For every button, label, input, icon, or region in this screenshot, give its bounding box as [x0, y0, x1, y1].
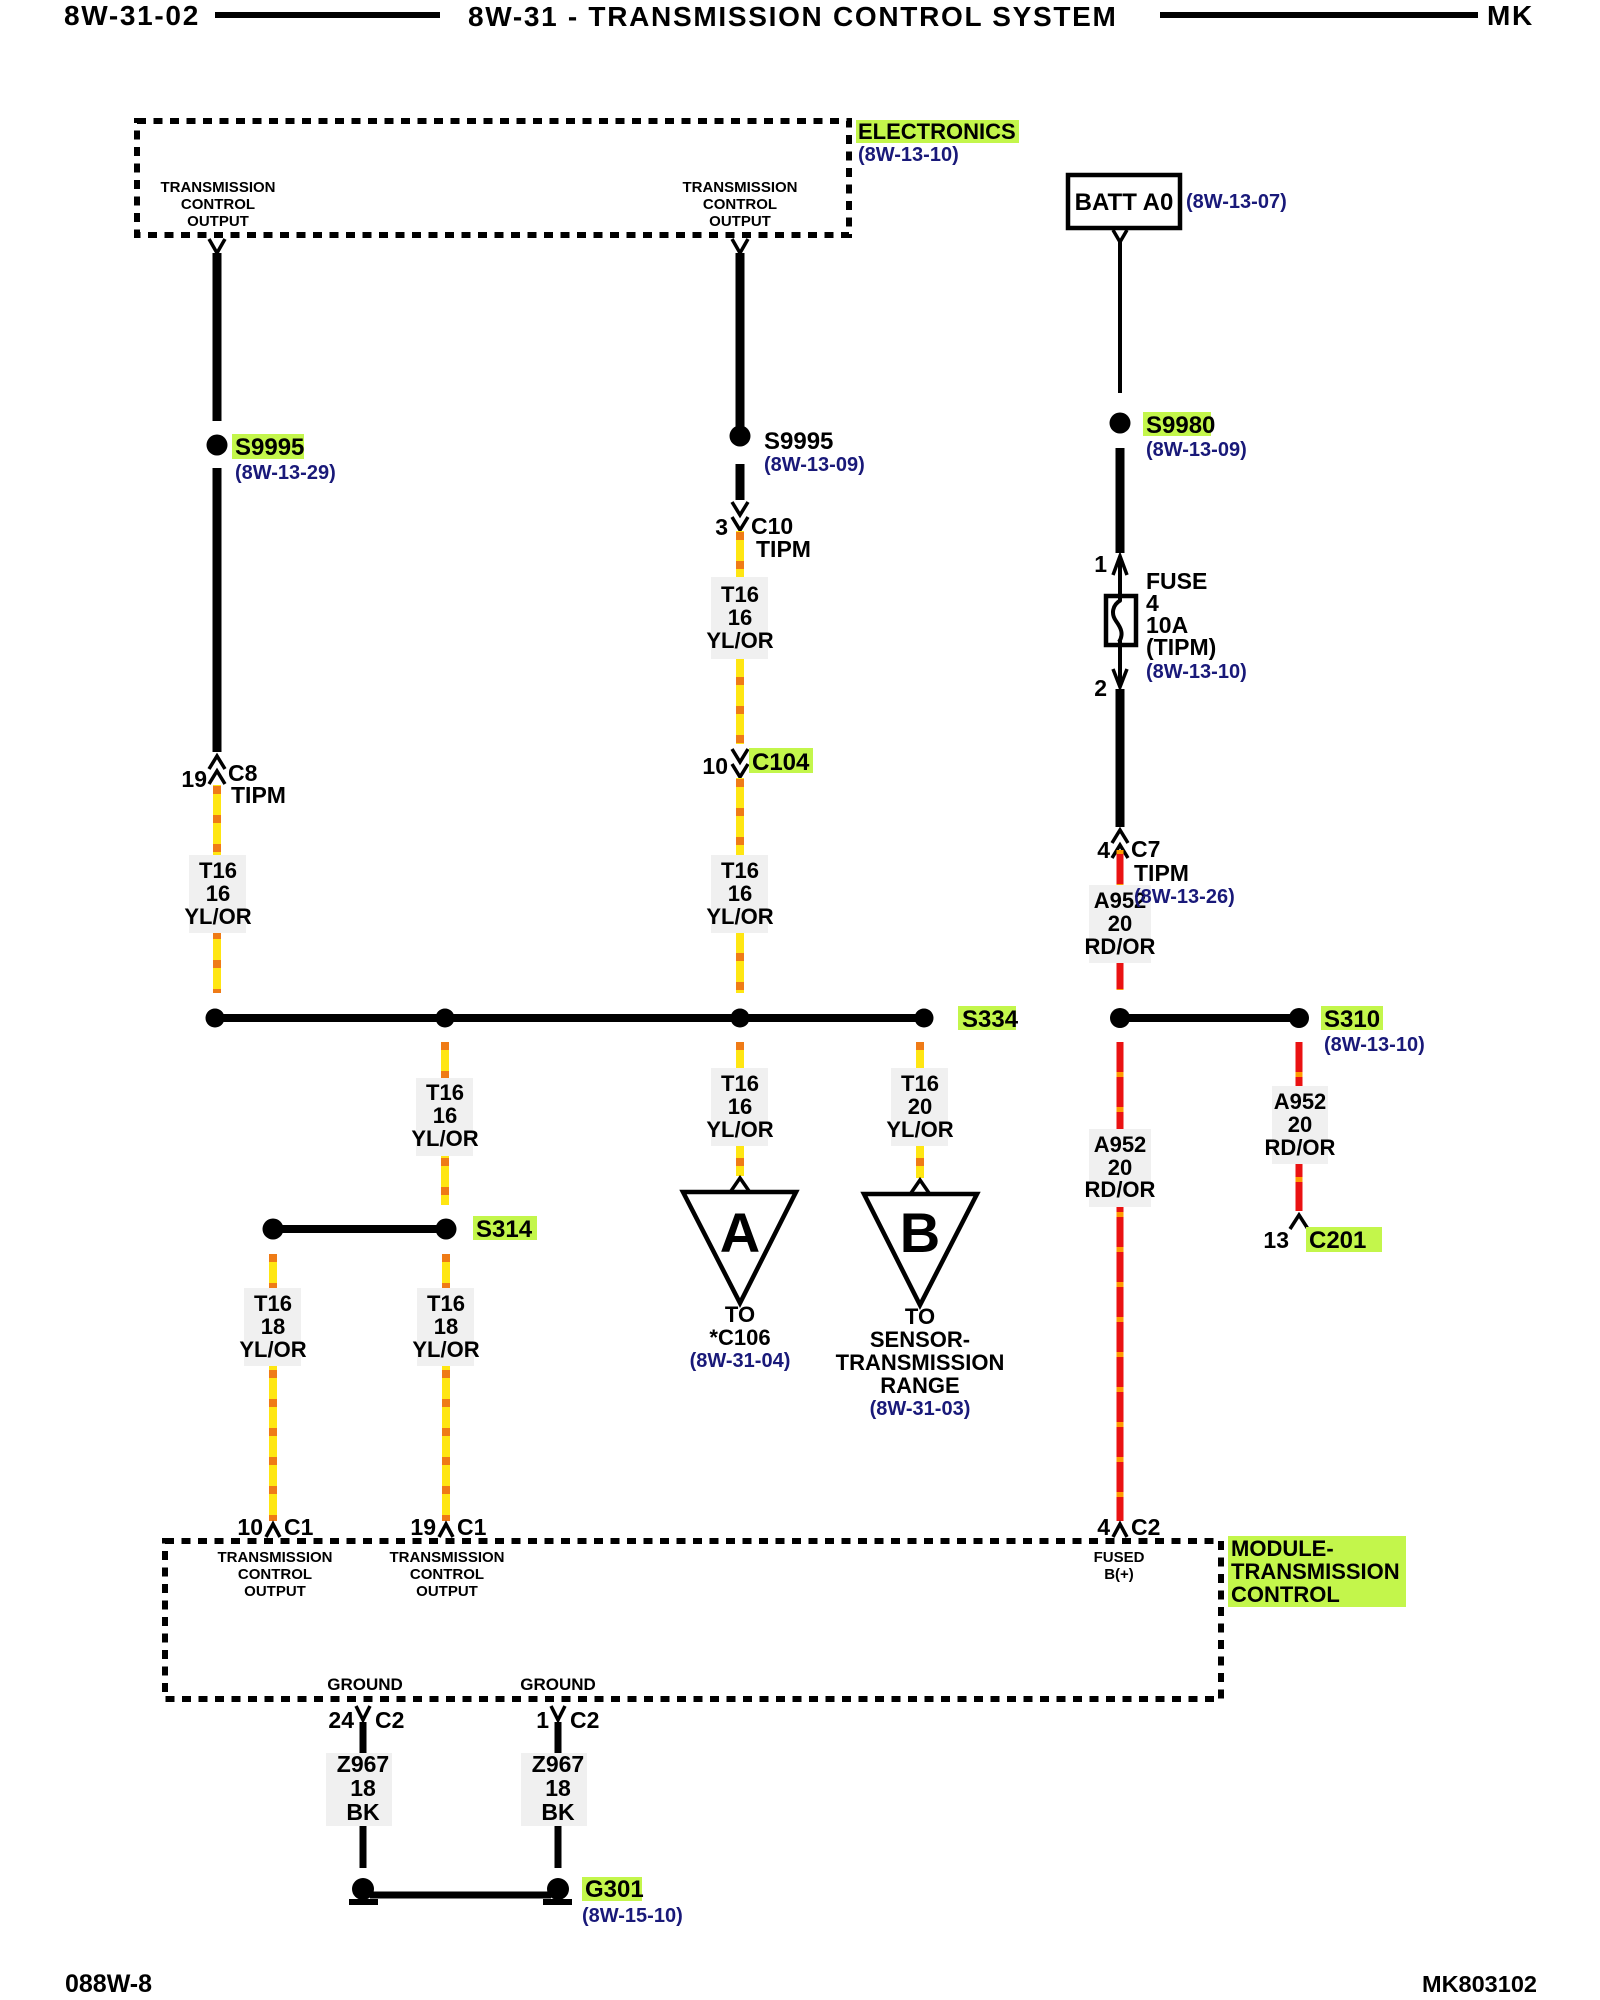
- svg-text:(8W-13-07): (8W-13-07): [1186, 191, 1287, 213]
- svg-text:RD/OR: RD/OR: [1085, 934, 1156, 959]
- splice S9980: [1110, 413, 1131, 434]
- svg-text:10: 10: [702, 753, 728, 779]
- HEADER: [64, 0, 1534, 32]
- svg-text:C1: C1: [284, 1514, 314, 1540]
- svg-text:16: 16: [728, 605, 752, 630]
- fuse F4 10A body: [1106, 596, 1136, 645]
- svg-text:YL/OR: YL/OR: [239, 1337, 306, 1362]
- svg-text:C104: C104: [752, 749, 810, 776]
- label S314: [473, 1216, 537, 1240]
- svg-text:3: 3: [715, 514, 728, 540]
- FOOTER: [65, 1970, 1537, 1998]
- wire A952 20 RD/OR (S310 to C2): [1117, 1042, 1124, 1521]
- wire T16 16 YL/OR (S334 to S314): [441, 1042, 449, 1205]
- svg-text:T16: T16: [721, 1071, 759, 1096]
- svg-text:YL/OR: YL/OR: [886, 1117, 953, 1142]
- svg-text:13: 13: [1263, 1227, 1289, 1253]
- GROUNDS: [326, 1706, 683, 1927]
- fuse pin 2 chevron: [1113, 669, 1127, 687]
- svg-text:TRANSMISSION: TRANSMISSION: [217, 1549, 332, 1566]
- svg-text:OUTPUT: OUTPUT: [187, 213, 249, 230]
- svg-text:YL/OR: YL/OR: [706, 628, 773, 653]
- header rule left: [215, 12, 440, 18]
- svg-text:CONTROL: CONTROL: [1231, 1582, 1340, 1607]
- battery node BATT A0 box: [1068, 175, 1180, 228]
- svg-text:19: 19: [181, 766, 207, 792]
- electronics label highlight: [856, 120, 1019, 143]
- svg-text:TIPM: TIPM: [756, 536, 811, 562]
- svg-text:10: 10: [237, 1514, 263, 1540]
- module dashed box: [165, 1541, 1221, 1699]
- svg-text:SENSOR-: SENSOR-: [870, 1327, 970, 1352]
- off-page triangle A: [683, 1192, 796, 1303]
- svg-text:1: 1: [1094, 551, 1107, 577]
- svg-text:(8W-31-03): (8W-31-03): [870, 1398, 971, 1420]
- svg-text:S9995: S9995: [235, 434, 304, 461]
- MODULE BOX: [165, 1514, 1406, 1699]
- svg-text:18: 18: [434, 1314, 458, 1339]
- svg-text:(8W-13-10): (8W-13-10): [858, 144, 959, 166]
- svg-text:19: 19: [410, 1514, 436, 1540]
- splice bus S310: [1120, 1014, 1299, 1022]
- connector V at electronics box (mid output): [732, 239, 748, 253]
- svg-text:YL/OR: YL/OR: [706, 904, 773, 929]
- fuse element S-curve: [1113, 600, 1122, 642]
- svg-text:C1: C1: [457, 1514, 487, 1540]
- off-page triangle B: [864, 1194, 977, 1305]
- svg-text:18: 18: [261, 1314, 285, 1339]
- svg-text:(TIPM): (TIPM): [1146, 634, 1216, 660]
- svg-text:A952: A952: [1274, 1089, 1327, 1114]
- wire into fuse: [1118, 557, 1122, 601]
- svg-text:S310: S310: [1324, 1006, 1380, 1033]
- connector 19 C1 chevron: [439, 1524, 453, 1537]
- connector 19 C8 chevrons: [209, 756, 225, 769]
- svg-text:MK: MK: [1487, 0, 1534, 31]
- svg-text:C2: C2: [1131, 1514, 1160, 1540]
- wire T16 16 YL/OR (C104 to S334): [736, 778, 744, 993]
- wire Z967 18 BK (upper, right): [555, 1722, 562, 1753]
- svg-text:T16: T16: [721, 582, 759, 607]
- connector 4 C7 chevrons: [1112, 830, 1128, 843]
- label G301: [582, 1877, 642, 1901]
- label S334: [958, 1006, 1016, 1030]
- wire: mid output down to C10: [736, 253, 745, 427]
- svg-text:T16: T16: [199, 858, 237, 883]
- svg-text:Z967: Z967: [337, 1751, 389, 1777]
- svg-text:BK: BK: [541, 1799, 575, 1825]
- connector 13 C201 chevron: [1290, 1215, 1308, 1229]
- connector 10 C1 chevron: [266, 1524, 280, 1537]
- LOWER MID: [239, 1042, 1004, 1521]
- ground node dot right: [547, 1878, 569, 1900]
- wire A952 20 RD/OR (S310 to C201): [1296, 1042, 1303, 1211]
- ELECTRONICS BOX: [137, 119, 1287, 235]
- svg-text:B(+): B(+): [1104, 1566, 1134, 1583]
- MID COLUMN: [702, 239, 864, 993]
- wire label T16 18 YL/OR: [244, 1288, 301, 1366]
- wire T16 18 YL/OR (S314 to 10 C1): [269, 1254, 277, 1521]
- wire: S9980 down to fuse pin 1: [1116, 448, 1125, 553]
- svg-text:OUTPUT: OUTPUT: [709, 213, 771, 230]
- splice S9995 (mid): [730, 426, 751, 447]
- svg-text:20: 20: [1108, 911, 1132, 936]
- svg-text:YL/OR: YL/OR: [412, 1337, 479, 1362]
- svg-text:(8W-13-10): (8W-13-10): [1324, 1034, 1425, 1056]
- wire out of fuse: [1118, 641, 1122, 686]
- splice S9995 (left): [207, 435, 228, 456]
- svg-text:TO: TO: [905, 1304, 935, 1329]
- splice bus S314: [273, 1225, 446, 1233]
- svg-text:OUTPUT: OUTPUT: [244, 1583, 306, 1600]
- wire label A952 20 RD/OR: [1089, 885, 1151, 963]
- wire label Z967 18 BK: [326, 1753, 392, 1826]
- svg-text:16: 16: [728, 881, 752, 906]
- wire label T16 16 YL/OR: [416, 1078, 473, 1156]
- connector V at electronics box (left output): [209, 239, 225, 253]
- wire label A952 20 RD/OR: [1089, 1129, 1151, 1207]
- svg-text:S9980: S9980: [1146, 412, 1215, 439]
- wire T16 16 YL/OR (C8 to S334): [213, 785, 221, 993]
- svg-text:20: 20: [1288, 1112, 1312, 1137]
- svg-text:TIPM: TIPM: [1134, 860, 1189, 886]
- svg-text:(8W-31-04): (8W-31-04): [690, 1350, 791, 1372]
- node S310 dot left: [1110, 1008, 1130, 1028]
- wire T16 16 YL/OR (C10 to C104): [736, 531, 744, 744]
- svg-text:GROUND: GROUND: [327, 1675, 403, 1694]
- svg-text:MK803102: MK803102: [1422, 1971, 1537, 1997]
- connector 4 C2 chevron: [1113, 1524, 1127, 1537]
- connector 24 C2 chevron: [356, 1706, 370, 1720]
- svg-text:8W-31-02: 8W-31-02: [64, 0, 200, 31]
- wire: battery feed down to S9980: [1118, 242, 1122, 393]
- wire Z967 18 BK (lower, left): [360, 1826, 367, 1868]
- svg-text:(8W-13-10): (8W-13-10): [1146, 661, 1247, 683]
- wire label A952 20 RD/OR: [1272, 1086, 1328, 1164]
- node S334 dot 2: [436, 1009, 455, 1028]
- svg-text:1: 1: [536, 1707, 549, 1733]
- svg-text:20: 20: [908, 1094, 932, 1119]
- svg-text:CONTROL: CONTROL: [238, 1566, 312, 1583]
- svg-text:18: 18: [350, 1775, 376, 1801]
- svg-text:C7: C7: [1131, 836, 1160, 862]
- svg-text:TRANSMISSION: TRANSMISSION: [682, 179, 797, 196]
- svg-text:(8W-13-26): (8W-13-26): [1134, 886, 1235, 908]
- svg-text:CONTROL: CONTROL: [410, 1566, 484, 1583]
- svg-text:24: 24: [328, 1707, 354, 1733]
- svg-text:4: 4: [1097, 1514, 1110, 1540]
- svg-text:GROUND: GROUND: [520, 1675, 596, 1694]
- wire label Z967 18 BK: [521, 1753, 587, 1826]
- wire label T16 20 YL/OR: [891, 1068, 948, 1146]
- wire label T16 18 YL/OR: [417, 1288, 474, 1366]
- connector chevron above triangle B: [911, 1180, 929, 1193]
- svg-text:RD/OR: RD/OR: [1085, 1177, 1156, 1202]
- svg-text:S334: S334: [962, 1006, 1019, 1033]
- svg-text:C2: C2: [375, 1707, 404, 1733]
- node S334 dot 4: [915, 1009, 934, 1028]
- ground node dot left: [352, 1878, 374, 1900]
- splice bus S334: [215, 1014, 924, 1022]
- svg-text:C2: C2: [570, 1707, 599, 1733]
- svg-text:CONTROL: CONTROL: [181, 196, 255, 213]
- fuse pin 1 chevron: [1113, 556, 1127, 575]
- connector chevron above triangle A: [731, 1178, 749, 1191]
- svg-text:TO: TO: [725, 1302, 755, 1327]
- svg-text:FUSED: FUSED: [1094, 1549, 1145, 1566]
- wire T16 16 YL/OR (S334 to triangle A): [736, 1042, 744, 1176]
- svg-text:YL/OR: YL/OR: [184, 904, 251, 929]
- svg-text:(8W-15-10): (8W-15-10): [582, 1905, 683, 1927]
- svg-text:TRANSMISSION: TRANSMISSION: [160, 179, 275, 196]
- node S334 dot 3: [731, 1009, 750, 1028]
- wire label T16 16 YL/OR: [711, 855, 768, 933]
- wire A952 20 RD/OR (C7 to S310): [1117, 850, 1124, 990]
- connector 1 C2 chevron: [551, 1706, 565, 1720]
- electronics dashed box: [137, 121, 849, 235]
- svg-text:YL/OR: YL/OR: [706, 1117, 773, 1142]
- wire: left output down to C8: [213, 253, 222, 421]
- svg-text:088W-8: 088W-8: [65, 1970, 152, 1998]
- svg-text:T16: T16: [901, 1071, 939, 1096]
- module label highlight: [1228, 1536, 1406, 1607]
- connector V below BATT A0: [1113, 230, 1127, 242]
- wire Z967 18 BK (lower, right): [555, 1826, 562, 1868]
- svg-text:Z967: Z967: [532, 1751, 584, 1777]
- svg-text:S9995: S9995: [764, 428, 833, 455]
- svg-text:(8W-13-29): (8W-13-29): [235, 462, 336, 484]
- header rule right: [1160, 12, 1478, 18]
- svg-text:TIPM: TIPM: [231, 782, 286, 808]
- svg-text:TRANSMISSION: TRANSMISSION: [389, 1549, 504, 1566]
- wire T16 18 YL/OR (S314 to 19 C1): [442, 1254, 450, 1521]
- svg-text:RANGE: RANGE: [880, 1373, 959, 1398]
- svg-text:16: 16: [728, 1094, 752, 1119]
- svg-text:16: 16: [206, 881, 230, 906]
- node S314 dot right: [436, 1219, 457, 1240]
- node S334 dot 1: [206, 1009, 225, 1028]
- svg-text:T16: T16: [254, 1291, 292, 1316]
- label S310: [1321, 1006, 1383, 1030]
- svg-text:2: 2: [1094, 675, 1107, 701]
- svg-text:8W-31 - TRANSMISSION CONTROL S: 8W-31 - TRANSMISSION CONTROL SYSTEM: [468, 1, 1118, 32]
- node S314 dot left: [263, 1219, 284, 1240]
- svg-text:TRANSMISSION: TRANSMISSION: [1231, 1559, 1400, 1584]
- BUSES: [206, 1006, 1425, 1521]
- svg-text:YL/OR: YL/OR: [411, 1126, 478, 1151]
- ground bus G301: [370, 1892, 551, 1899]
- svg-text:OUTPUT: OUTPUT: [416, 1583, 478, 1600]
- svg-text:TRANSMISSION: TRANSMISSION: [836, 1350, 1005, 1375]
- svg-text:(8W-13-09): (8W-13-09): [1146, 439, 1247, 461]
- wire: fuse to C7: [1116, 689, 1125, 827]
- connector 10 C104 chevrons: [732, 749, 748, 762]
- svg-text:S314: S314: [476, 1216, 533, 1243]
- svg-text:C201: C201: [1309, 1227, 1366, 1254]
- svg-text:(8W-13-09): (8W-13-09): [764, 454, 865, 476]
- svg-text:A952: A952: [1094, 1132, 1147, 1157]
- wire T16 20 YL/OR (S334 to triangle B): [916, 1042, 924, 1178]
- svg-text:B: B: [900, 1201, 940, 1264]
- svg-text:18: 18: [545, 1775, 571, 1801]
- svg-text:BATT A0: BATT A0: [1075, 189, 1174, 216]
- LEFT COLUMN: [181, 239, 335, 993]
- node S310 dot right: [1289, 1008, 1309, 1028]
- svg-text:MODULE-: MODULE-: [1231, 1536, 1334, 1561]
- wire label T16 16 YL/OR: [711, 577, 768, 659]
- svg-text:CONTROL: CONTROL: [703, 196, 777, 213]
- svg-text:T16: T16: [721, 858, 759, 883]
- connector 3 C10 chevrons: [732, 502, 748, 515]
- svg-text:RD/OR: RD/OR: [1265, 1135, 1336, 1160]
- wire label T16 16 YL/OR: [711, 1068, 768, 1146]
- svg-text:*C106: *C106: [709, 1325, 770, 1350]
- svg-text:G301: G301: [585, 1876, 644, 1903]
- svg-text:T16: T16: [426, 1080, 464, 1105]
- RIGHT COLUMN: [1085, 230, 1247, 990]
- svg-text:ELECTRONICS: ELECTRONICS: [858, 119, 1016, 144]
- wire label T16 16 YL/OR: [189, 855, 246, 933]
- svg-text:16: 16: [433, 1103, 457, 1128]
- wire Z967 18 BK (upper, left): [360, 1722, 367, 1753]
- svg-text:BK: BK: [346, 1799, 380, 1825]
- svg-text:T16: T16: [427, 1291, 465, 1316]
- svg-text:4: 4: [1097, 837, 1110, 863]
- ground bar right: [543, 1899, 572, 1905]
- ground bar left: [349, 1899, 378, 1905]
- svg-text:A: A: [720, 1201, 760, 1264]
